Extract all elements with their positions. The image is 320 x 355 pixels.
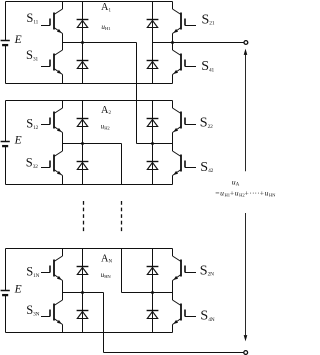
svg-text:uH1: uH1 <box>101 23 111 31</box>
svg-text:E: E <box>14 135 22 147</box>
svg-text:S32: S32 <box>26 156 38 170</box>
svg-text:S31: S31 <box>26 48 38 62</box>
svg-text:uH2: uH2 <box>101 123 111 131</box>
svg-text:A1: A1 <box>101 2 111 13</box>
svg-text:S12: S12 <box>26 117 38 131</box>
svg-text:A2: A2 <box>101 105 111 116</box>
svg-text:S2N: S2N <box>200 263 214 278</box>
svg-text:S3N: S3N <box>26 303 39 317</box>
svg-text:uHN: uHN <box>101 271 112 279</box>
svg-text:S42: S42 <box>200 160 213 175</box>
svg-text:E: E <box>14 284 22 296</box>
svg-text:AN: AN <box>101 253 112 264</box>
svg-text:S22: S22 <box>200 115 213 130</box>
svg-text:uA: uA <box>232 178 240 188</box>
svg-text:S21: S21 <box>202 12 215 27</box>
svg-text:S11: S11 <box>26 11 38 25</box>
svg-text:S41: S41 <box>201 59 214 74</box>
svg-text:E: E <box>14 34 22 46</box>
svg-text:S4N: S4N <box>200 309 214 324</box>
svg-text:=uH1+uH2+····+uHN: =uH1+uH2+····+uHN <box>215 188 276 197</box>
svg-text:S1N: S1N <box>26 265 39 279</box>
